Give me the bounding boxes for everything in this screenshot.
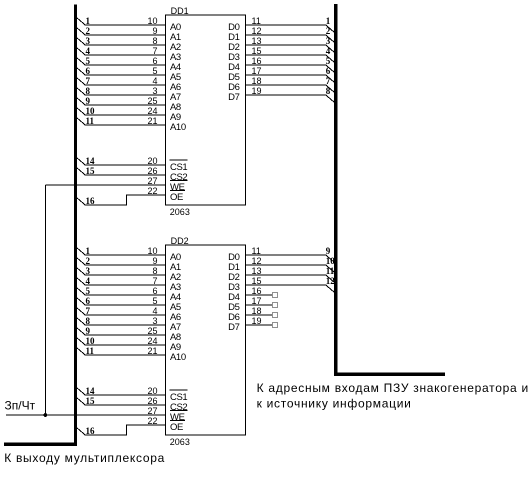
wire A6 bus-line 7 to DD2 pin 4 xyxy=(76,306,165,316)
svg-text:9: 9 xyxy=(152,256,157,266)
svg-text:7: 7 xyxy=(326,76,331,86)
svg-text:OE: OE xyxy=(170,422,183,433)
svg-text:К адресным входам ПЗУ знакоген: К адресным входам ПЗУ знакогенератора и xyxy=(257,381,529,395)
svg-text:14: 14 xyxy=(86,156,96,166)
svg-text:D7: D7 xyxy=(228,322,239,333)
svg-text:A10: A10 xyxy=(170,122,186,133)
wire CS2 bus-line 15 to DD1 pin 26 xyxy=(76,166,165,176)
wire A4 bus-line 5 to DD1 pin 6 xyxy=(76,56,165,66)
wire A1 bus-line 2 to DD1 pin 9 xyxy=(76,26,165,36)
svg-text:22: 22 xyxy=(147,186,157,196)
svg-text:D7: D7 xyxy=(228,92,239,103)
svg-text:4: 4 xyxy=(152,306,157,316)
wire CS1 bus-line 14 to DD2 pin 20 xyxy=(76,386,165,396)
svg-text:10: 10 xyxy=(326,256,336,266)
wire CS1 bus-line 14 to DD1 pin 20 xyxy=(76,156,165,166)
wire D1 DD2 pin 12 to bus-line 10 xyxy=(246,256,336,273)
svg-text:5: 5 xyxy=(326,56,331,66)
wire A4 bus-line 5 to DD2 pin 6 xyxy=(76,286,165,296)
DD1 data pin labels D0-D7 xyxy=(228,22,239,103)
svg-text:27: 27 xyxy=(147,406,157,416)
wire D2 DD1 pin 13 to bus-line 3 xyxy=(246,36,335,53)
wire D6 DD1 pin 18 to bus-line 7 xyxy=(246,76,335,93)
unconnected stub DD2 pin 17 D5 xyxy=(246,296,278,308)
IC DD2 2063 SRAM xyxy=(166,236,246,447)
wire D3 DD2 pin 15 to bus-line 12 xyxy=(246,276,336,293)
svg-text:5: 5 xyxy=(86,56,91,66)
svg-text:20: 20 xyxy=(147,156,157,166)
wire D0 DD1 pin 11 to bus-line 1 xyxy=(246,16,335,33)
svg-text:7: 7 xyxy=(86,306,91,316)
wire A6 bus-line 7 to DD1 pin 4 xyxy=(76,76,165,86)
svg-text:16: 16 xyxy=(86,426,96,436)
svg-text:10: 10 xyxy=(86,106,96,116)
DD1 address pin labels A0-A10 xyxy=(170,22,186,133)
unconnected stub DD2 pin 18 D6 xyxy=(246,306,278,318)
DD2 address pin labels A0-A10 xyxy=(170,252,186,363)
svg-text:DD1: DD1 xyxy=(171,6,189,16)
svg-text:5: 5 xyxy=(86,286,91,296)
svg-text:3: 3 xyxy=(86,266,91,276)
IC DD1 2063 SRAM xyxy=(166,6,246,217)
left address bus (thick) xyxy=(4,5,76,445)
wire A2 bus-line 3 to DD1 pin 8 xyxy=(76,36,165,46)
svg-text:19: 19 xyxy=(252,86,262,96)
svg-text:16: 16 xyxy=(252,286,262,296)
svg-text:24: 24 xyxy=(147,336,157,346)
svg-text:7: 7 xyxy=(152,46,157,56)
svg-text:12: 12 xyxy=(326,276,336,286)
svg-text:24: 24 xyxy=(147,106,157,116)
wire Зп/Чт (WR/RD) net to WE pins xyxy=(6,414,166,416)
unconnected stub DD2 pin 16 D4 xyxy=(246,286,278,298)
svg-text:10: 10 xyxy=(86,336,96,346)
svg-text:13: 13 xyxy=(252,266,262,276)
svg-text:2063: 2063 xyxy=(170,437,190,447)
svg-text:26: 26 xyxy=(147,396,157,406)
svg-text:18: 18 xyxy=(252,76,262,86)
svg-text:22: 22 xyxy=(147,416,157,426)
svg-text:27: 27 xyxy=(147,176,157,186)
svg-text:13: 13 xyxy=(252,36,262,46)
svg-text:9: 9 xyxy=(152,26,157,36)
svg-text:1: 1 xyxy=(86,16,91,26)
svg-text:A10: A10 xyxy=(170,352,186,363)
svg-text:26: 26 xyxy=(147,166,157,176)
svg-text:7: 7 xyxy=(152,276,157,286)
svg-text:6: 6 xyxy=(152,56,157,66)
svg-text:3: 3 xyxy=(326,36,331,46)
svg-text:8: 8 xyxy=(326,86,331,96)
svg-text:К выходу мультиплексора: К выходу мультиплексора xyxy=(4,451,165,465)
DD1 control pin labels CS1 CS2 WE OE xyxy=(170,160,188,203)
svg-text:7: 7 xyxy=(86,76,91,86)
svg-text:1: 1 xyxy=(86,246,91,256)
svg-text:1: 1 xyxy=(326,16,331,26)
svg-text:OE: OE xyxy=(170,192,183,203)
svg-text:21: 21 xyxy=(147,346,157,356)
svg-text:11: 11 xyxy=(252,16,261,26)
svg-text:16: 16 xyxy=(252,56,262,66)
wire A9 bus-line 10 to DD1 pin 24 xyxy=(76,106,165,116)
wire WE to DD2 pin 27 xyxy=(45,406,165,416)
wire A0 bus-line 1 to DD1 pin 10 xyxy=(76,16,165,26)
wire D3 DD1 pin 15 to bus-line 4 xyxy=(246,46,335,63)
svg-text:12: 12 xyxy=(252,256,262,266)
unconnected stub DD2 pin 19 D7 xyxy=(246,316,278,328)
svg-text:4: 4 xyxy=(86,276,91,286)
svg-text:15: 15 xyxy=(252,46,262,56)
wire A7 bus-line 8 to DD2 pin 3 xyxy=(76,316,165,326)
wire D4 DD1 pin 16 to bus-line 5 xyxy=(246,56,335,73)
svg-text:16: 16 xyxy=(86,196,96,206)
svg-text:17: 17 xyxy=(252,296,262,306)
svg-text:19: 19 xyxy=(252,316,262,326)
svg-text:11: 11 xyxy=(326,266,335,276)
svg-text:25: 25 xyxy=(147,96,157,106)
wire A8 bus-line 9 to DD1 pin 25 xyxy=(76,96,165,106)
svg-text:2: 2 xyxy=(86,26,91,36)
right data bus (thick) xyxy=(336,4,445,374)
wire D5 DD1 pin 17 to bus-line 6 xyxy=(246,66,335,83)
svg-text:21: 21 xyxy=(147,116,157,126)
svg-text:6: 6 xyxy=(86,296,91,306)
svg-text:9: 9 xyxy=(86,96,91,106)
wire D2 DD2 pin 13 to bus-line 11 xyxy=(246,266,335,283)
wire OE bus-line 16 to DD2 pin 22 xyxy=(76,416,165,436)
svg-text:14: 14 xyxy=(86,386,96,396)
svg-text:10: 10 xyxy=(147,16,157,26)
wire A8 bus-line 9 to DD2 pin 25 xyxy=(76,326,165,336)
svg-text:17: 17 xyxy=(252,66,262,76)
svg-text:6: 6 xyxy=(86,66,91,76)
svg-text:12: 12 xyxy=(252,26,262,36)
wire A7 bus-line 8 to DD1 pin 3 xyxy=(76,86,165,96)
svg-text:3: 3 xyxy=(152,316,157,326)
svg-text:25: 25 xyxy=(147,326,157,336)
svg-text:20: 20 xyxy=(147,386,157,396)
svg-text:15: 15 xyxy=(86,396,96,406)
wire CS2 bus-line 15 to DD2 pin 26 xyxy=(76,396,165,406)
wire A3 bus-line 4 to DD2 pin 7 xyxy=(76,276,165,286)
svg-text:Зп/Чт: Зп/Чт xyxy=(5,399,36,413)
svg-text:6: 6 xyxy=(326,66,331,76)
svg-text:2: 2 xyxy=(326,26,331,36)
svg-text:DD2: DD2 xyxy=(171,236,189,246)
DD2 data pin labels D0-D7 xyxy=(228,252,239,333)
svg-text:3: 3 xyxy=(152,86,157,96)
svg-text:8: 8 xyxy=(152,266,157,276)
wire A2 bus-line 3 to DD2 pin 8 xyxy=(76,266,165,276)
wire A10 bus-line 11 to DD1 pin 21 xyxy=(76,116,165,126)
svg-text:15: 15 xyxy=(252,276,262,286)
svg-text:11: 11 xyxy=(252,246,261,256)
wire A5 bus-line 6 to DD1 pin 5 xyxy=(76,66,165,76)
svg-text:11: 11 xyxy=(86,116,95,126)
wire A0 bus-line 1 to DD2 pin 10 xyxy=(76,246,165,256)
svg-text:4: 4 xyxy=(326,46,331,56)
junction node WE net xyxy=(43,413,47,417)
svg-text:6: 6 xyxy=(152,286,157,296)
svg-text:18: 18 xyxy=(252,306,262,316)
svg-text:3: 3 xyxy=(86,36,91,46)
svg-text:11: 11 xyxy=(86,346,95,356)
wire A5 bus-line 6 to DD2 pin 5 xyxy=(76,296,165,306)
svg-text:9: 9 xyxy=(326,246,331,256)
wire D1 DD1 pin 12 to bus-line 2 xyxy=(246,26,335,43)
svg-text:15: 15 xyxy=(86,166,96,176)
wire A10 bus-line 11 to DD2 pin 21 xyxy=(76,346,165,356)
wire WE to DD1 pin 27 xyxy=(45,176,165,186)
wire A1 bus-line 2 to DD2 pin 9 xyxy=(76,256,165,266)
wire D7 DD1 pin 19 to bus-line 8 xyxy=(246,86,335,103)
wire D0 DD2 pin 11 to bus-line 9 xyxy=(246,246,335,263)
DD2 control pin labels CS1 CS2 WE OE xyxy=(170,390,188,433)
svg-text:5: 5 xyxy=(152,66,157,76)
svg-text:2063: 2063 xyxy=(170,207,190,217)
svg-text:5: 5 xyxy=(152,296,157,306)
svg-text:10: 10 xyxy=(147,246,157,256)
wire A3 bus-line 4 to DD1 pin 7 xyxy=(76,46,165,56)
svg-text:8: 8 xyxy=(86,316,91,326)
wire OE bus-line 16 to DD1 pin 22 xyxy=(76,186,165,206)
svg-text:2: 2 xyxy=(86,256,91,266)
svg-text:к источнику информации: к источнику информации xyxy=(257,397,412,411)
svg-text:8: 8 xyxy=(152,36,157,46)
svg-text:4: 4 xyxy=(86,46,91,56)
wire A9 bus-line 10 to DD2 pin 24 xyxy=(76,336,165,346)
wire vertical WE interconnect DD1-DD2 xyxy=(44,185,46,415)
svg-text:8: 8 xyxy=(86,86,91,96)
svg-text:9: 9 xyxy=(86,326,91,336)
svg-text:4: 4 xyxy=(152,76,157,86)
